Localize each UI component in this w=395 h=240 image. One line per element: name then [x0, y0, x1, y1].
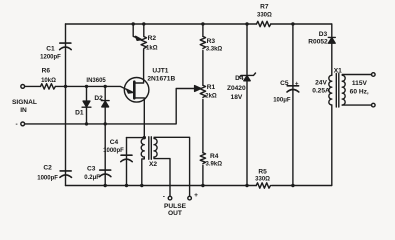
- svg-text:C3: C3: [87, 165, 96, 172]
- svg-text:0.25A: 0.25A: [312, 87, 330, 94]
- transformer X1 core: [336, 74, 339, 108]
- terminal pulse out minus: [168, 196, 172, 200]
- capacitor C4 plates: [121, 155, 132, 162]
- svg-text:PULSE: PULSE: [164, 203, 187, 210]
- junction R2 wiper / top rail: [132, 22, 135, 25]
- diode D1 triangle: [83, 101, 90, 107]
- terminal X1 top: [372, 73, 376, 77]
- svg-text:D4: D4: [235, 75, 244, 82]
- capacitor C2 (in left rail): [60, 171, 72, 178]
- svg-text:IN: IN: [20, 107, 27, 114]
- svg-text:UJT1: UJT1: [152, 67, 168, 74]
- diode D3 wire with corner from top rail: [331, 24, 333, 75]
- svg-text:R0052: R0052: [308, 39, 328, 46]
- transformer X1 secondary winding: [342, 75, 345, 105]
- junction C4 / bottom rail: [125, 184, 128, 187]
- diode D3 bar: [328, 36, 335, 38]
- svg-text:R5: R5: [258, 168, 267, 175]
- resistor R7 (zigzag in top rail): [257, 21, 271, 26]
- diode D3 triangle: [328, 38, 335, 43]
- resistor R2 (zigzag): [141, 24, 146, 50]
- svg-text:2N1671B: 2N1671B: [147, 75, 175, 82]
- wire bottom rail: [66, 185, 332, 187]
- junction D1 top: [85, 85, 88, 88]
- transistor UJT1 base bar: [133, 82, 136, 99]
- svg-text:R6: R6: [42, 67, 51, 74]
- svg-text:R4: R4: [210, 153, 219, 160]
- transformer X2 primary winding: [141, 139, 144, 158]
- junction C3 / bottom rail: [104, 184, 107, 187]
- capacitor C5 plates: [287, 86, 299, 92]
- junction C5 / bottom rail: [291, 184, 294, 187]
- svg-text:Z0420: Z0420: [227, 85, 246, 92]
- junction R2 / top rail: [142, 22, 145, 25]
- svg-text:24V: 24V: [315, 79, 327, 86]
- resistor R1 (zigzag): [200, 85, 205, 97]
- terminal X1 bottom: [372, 103, 376, 107]
- svg-text:18V: 18V: [231, 94, 243, 101]
- junction X2 primary top / C4 / b1: [143, 136, 146, 139]
- svg-text:100μF: 100μF: [273, 98, 291, 104]
- svg-text:D1: D1: [75, 109, 84, 116]
- svg-text:D2: D2: [94, 95, 103, 102]
- zener diode D4 bar: [239, 73, 256, 78]
- svg-text:330Ω: 330Ω: [255, 176, 270, 182]
- svg-text:C2: C2: [43, 165, 52, 172]
- svg-text:+: +: [194, 192, 198, 199]
- svg-text:R7: R7: [260, 4, 269, 11]
- resistor R2 wiper arrow wire: [133, 24, 137, 38]
- svg-text:115V: 115V: [352, 80, 368, 87]
- svg-text:3.3kΩ: 3.3kΩ: [206, 46, 223, 52]
- resistor R6 (zigzag): [41, 84, 56, 89]
- svg-text:-: -: [163, 193, 165, 200]
- capacitor C3 wire: [104, 124, 106, 186]
- svg-text:1kΩ: 1kΩ: [146, 45, 158, 51]
- svg-text:1000pF: 1000pF: [37, 175, 58, 181]
- signal input top wire: [25, 86, 131, 91]
- svg-text:0.2μF: 0.2μF: [84, 175, 100, 181]
- junction R6 / left rail: [64, 85, 67, 88]
- transformer X1 primary bottom lead: [342, 104, 371, 106]
- capacitor C5 wire: [292, 24, 294, 186]
- svg-text:+: +: [295, 81, 299, 87]
- diode D2: [101, 86, 109, 124]
- zener diode D4 wire: [246, 24, 248, 186]
- transformer X1 primary winding: [329, 75, 332, 105]
- transformer X1 secondary bottom lead to rail: [331, 105, 333, 186]
- svg-text:1200pF: 1200pF: [40, 55, 61, 61]
- zener diode D4 triangle: [244, 76, 250, 81]
- svg-text:SIGNAL: SIGNAL: [12, 99, 37, 106]
- svg-text:R2: R2: [148, 35, 157, 42]
- junction X2 primary bottom / bottom rail: [140, 184, 143, 187]
- transformer X2 core: [149, 137, 152, 160]
- junction C5 / top rail: [291, 22, 294, 25]
- transformer X2 primary bottom lead: [142, 157, 145, 186]
- diode D2 triangle: [102, 101, 109, 107]
- wire top rail: [66, 23, 332, 25]
- arrowhead into R1: [195, 86, 201, 92]
- svg-text:OUT: OUT: [168, 210, 182, 217]
- signal input bottom wire: [25, 89, 198, 124]
- transformer X2 secondary winding: [154, 139, 157, 158]
- terminal signal in bottom: [21, 122, 25, 126]
- svg-text:2kΩ: 2kΩ: [205, 93, 217, 99]
- transformer X2 secondary bottom lead: [154, 157, 170, 196]
- svg-text:C5: C5: [280, 80, 289, 87]
- wire C4 branch horizontal: [127, 137, 145, 139]
- transistor UJT1 emitter arrow: [127, 89, 133, 93]
- svg-text:60 Hz,: 60 Hz,: [350, 89, 369, 96]
- svg-text:D3: D3: [319, 31, 328, 38]
- junction D4 / bottom rail: [245, 184, 248, 187]
- wire left rail: [65, 24, 67, 186]
- svg-text:X2: X2: [149, 161, 157, 168]
- capacitor C3 plates: [100, 170, 111, 177]
- transformer X1 primary top lead: [342, 74, 371, 76]
- svg-text:C4: C4: [110, 139, 119, 146]
- transistor UJT1 circle: [124, 78, 149, 103]
- svg-text:R1: R1: [207, 84, 216, 91]
- transistor UJT1 b2 lead: [134, 50, 143, 83]
- capacitor C1 (in left rail): [60, 43, 72, 50]
- svg-text:X1: X1: [334, 68, 342, 75]
- svg-text:3.9kΩ: 3.9kΩ: [206, 162, 223, 168]
- transformer X2 secondary top lead: [154, 137, 190, 196]
- resistor R5 (zigzag in bottom rail): [256, 183, 270, 188]
- junction R3 / top rail: [201, 22, 204, 25]
- svg-text:1000pF: 1000pF: [103, 148, 124, 154]
- wire R3 R1 R4 rail: [202, 24, 204, 186]
- terminal pulse out plus: [188, 196, 192, 200]
- diode D1: [82, 86, 91, 124]
- transistor UJT1 b1 lead: [134, 98, 144, 138]
- junction D2 bottom / C3: [104, 122, 107, 125]
- svg-text:R3: R3: [207, 38, 216, 45]
- junction D1 bottom: [85, 122, 88, 125]
- junction D4 / top rail: [245, 22, 248, 25]
- resistor R2 wiper arrowhead: [136, 36, 142, 40]
- junction R4 / bottom rail: [201, 184, 204, 187]
- junction D2 top: [104, 85, 107, 88]
- resistor R4 (zigzag): [200, 153, 205, 164]
- capacitor C4 wire: [126, 138, 128, 186]
- terminal signal in top: [21, 85, 25, 89]
- svg-text:330Ω: 330Ω: [257, 13, 272, 19]
- svg-text:-: -: [15, 121, 17, 128]
- resistor R3 (zigzag): [200, 36, 205, 48]
- svg-text:10kΩ: 10kΩ: [41, 78, 56, 84]
- svg-text:C1: C1: [46, 46, 55, 53]
- svg-text:IN3605: IN3605: [86, 78, 106, 84]
